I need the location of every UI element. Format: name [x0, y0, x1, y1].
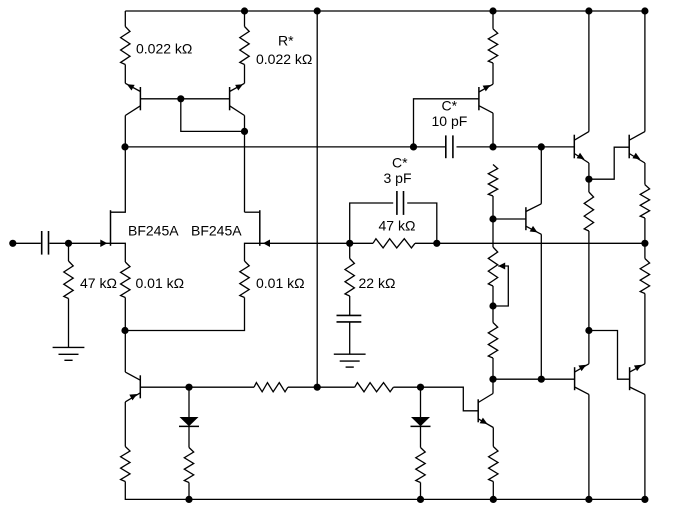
svg-text:10 pF: 10 pF: [432, 113, 468, 129]
wire R3 to Q3 emitter: [492, 63, 494, 84]
wire Q5 collector up: [588, 11, 590, 132]
node dot top rail node A: [241, 7, 248, 14]
resistor emitter Q8: [121, 447, 130, 482]
wire bias column to R18: [317, 386, 355, 388]
wire Q4 collector drop: [540, 147, 542, 204]
node dot Q6 base link node: [585, 176, 592, 183]
wire diode2 node to Q7 base: [421, 387, 479, 411]
wire R7 to summing node: [124, 298, 126, 331]
node dot input terminal: [9, 240, 16, 247]
node dot top rail node C: [489, 7, 496, 14]
wire base link Q1-Q2: [140, 98, 229, 100]
diode D2: [411, 417, 431, 426]
resistor 47 kOhm input: [64, 261, 73, 299]
wire Q6 base link: [589, 147, 629, 179]
wire C1 to input node: [49, 242, 68, 244]
wire J1 drain step: [111, 147, 126, 212]
wire left column top (rail to R1): [124, 11, 126, 27]
wire fourth column R3b to Q4 base node: [492, 196, 494, 219]
label 0.01 kOhm right: [256, 275, 305, 291]
wire node to Q9 base: [541, 378, 574, 380]
node dot row2 node col4: [489, 143, 496, 150]
resistor emitter Q5: [584, 192, 593, 231]
transistor Q7: [478, 394, 493, 428]
node dot Q7 collector node: [489, 376, 496, 383]
wire R14 to bottom rail: [188, 483, 190, 500]
trimmer wiper wire: [493, 266, 508, 306]
wire row2 horizontal (Q1 collector to C2): [125, 146, 413, 148]
wire fourth column top (rail to R3): [492, 11, 494, 29]
svg-text:47 kΩ: 47 kΩ: [80, 275, 117, 291]
wire trimmer to mid node: [492, 286, 494, 306]
svg-text:0.022 kΩ: 0.022 kΩ: [136, 41, 192, 57]
wire input node down to R6: [68, 243, 70, 261]
node dot trimmer bottom node: [489, 302, 496, 309]
node dot row2 node cap: [410, 143, 417, 150]
wire J2 gate from feedback column: [260, 242, 350, 244]
label BF245A left: [128, 223, 179, 239]
wire input node to J1 gate: [69, 242, 111, 244]
wire Q9 collector down: [588, 394, 590, 499]
capacitor input coupling: [42, 231, 49, 255]
wire Q10 collector down: [644, 394, 646, 499]
node dot bottom rail node B: [417, 496, 424, 503]
node dot bottom rail node D: [585, 496, 592, 503]
label 47 kOhm feedback: [379, 218, 416, 234]
svg-text:22 kΩ: 22 kΩ: [359, 275, 396, 291]
node dot bottom rail node C: [490, 496, 497, 503]
wire R8 to corner: [125, 298, 244, 331]
svg-text:C*: C*: [442, 98, 458, 114]
label 47 kOhm input: [80, 275, 117, 291]
wire Q3 collector to row2: [492, 113, 494, 147]
wire R1 to Q1 emitter: [124, 65, 126, 84]
wire mid node to R12: [492, 306, 494, 323]
resistor emitter Q6: [640, 185, 649, 218]
wire R15 to bottom rail: [420, 483, 422, 500]
resistor collector load Q3: [488, 165, 497, 197]
node dot top rail node B: [314, 7, 321, 14]
transistor Q10: [630, 364, 645, 395]
wire 3pF left branch: [350, 203, 394, 243]
node dot bottom rail node A: [185, 496, 192, 503]
JFET J2 BF245A: [260, 210, 270, 247]
wire R4 to node 330: [588, 231, 590, 331]
resistor 22 kOhm: [345, 259, 354, 297]
resistor top fourth column: [488, 29, 497, 63]
wire node330 to Q9 emitter: [588, 331, 590, 364]
wire Q4 base node to trimmer: [492, 219, 494, 247]
transistor Q6: [629, 132, 645, 163]
wire row2 to Q5 base: [541, 146, 574, 148]
diode D1: [179, 417, 199, 426]
label 10 pF: [432, 113, 468, 129]
node dot node330 right: [585, 327, 592, 334]
wire row2 to fifth column: [493, 146, 541, 148]
node dot row2 node left: [121, 143, 128, 150]
wire R2 to Q2 emitter: [244, 65, 246, 84]
resistor 0.01 kOhm right: [240, 261, 249, 298]
svg-text:BF245A: BF245A: [191, 223, 242, 239]
resistor 47 kOhm feedback: [373, 239, 415, 248]
node dot bottom rail node E: [641, 496, 648, 503]
wire Q6 emitter to R5: [644, 163, 646, 185]
wire R18 to diode2 node: [393, 386, 420, 388]
wire third column (rail to bias node): [316, 11, 318, 387]
wire Q2 collector to link node: [244, 116, 246, 132]
node dot bias column node: [314, 384, 321, 391]
node dot input bias node: [65, 240, 72, 247]
wire R11 to Q10 emitter: [644, 294, 646, 364]
wire 3pF right branch: [407, 203, 437, 243]
wire summing node down to Q8: [124, 331, 126, 373]
wire D1 anode: [188, 387, 190, 417]
resistor bias right horizontal: [355, 383, 394, 392]
node dot gate row right node: [641, 240, 648, 247]
wire J2 drain column: [244, 131, 246, 212]
wire R4 top: [588, 179, 590, 192]
wire 22k top: [349, 243, 351, 258]
wire Q4 base: [493, 218, 526, 220]
label 0.01 kOhm left: [136, 275, 185, 291]
node dot mirror base node: [177, 95, 184, 102]
wire Q3 base corner: [414, 99, 479, 147]
label BF245A right: [191, 223, 242, 239]
svg-text:47 kΩ: 47 kΩ: [379, 218, 416, 234]
label C* 3pF title: [392, 155, 408, 171]
wire J2 drain step: [245, 211, 260, 213]
resistor diode chain left: [184, 448, 193, 483]
svg-text:0.022 kΩ: 0.022 kΩ: [256, 51, 312, 67]
wire top supply rail: [125, 10, 645, 12]
svg-text:C*: C*: [392, 155, 408, 171]
node dot top rail node D: [585, 7, 592, 14]
capacitor C* 3 pF: [397, 191, 404, 215]
label R*: [278, 33, 294, 49]
label 0.022 kOhm right: [256, 51, 312, 67]
capacitor 22k bypass: [337, 315, 362, 322]
label 0.022 kOhm left: [136, 41, 192, 57]
svg-text:BF245A: BF245A: [128, 223, 179, 239]
node dot summing node: [121, 327, 128, 334]
wire Q8 emitter down: [124, 402, 126, 447]
capacitor C* 10 pF: [414, 135, 453, 158]
resistor mid fourth column: [488, 323, 497, 359]
node dot driver node: [538, 376, 545, 383]
wire Q6 collector up: [644, 11, 646, 132]
wire R17 to bias column: [288, 386, 317, 388]
wire D2 anode: [420, 387, 422, 417]
resistor emitter Q7: [489, 447, 498, 482]
wire Q1 collector down to node row: [124, 116, 126, 147]
svg-text:3 pF: 3 pF: [384, 170, 412, 186]
wire node to R11: [644, 243, 646, 258]
wire R12 to collector node: [492, 358, 494, 379]
svg-text:0.01 kΩ: 0.01 kΩ: [136, 275, 185, 291]
node dot Q4 base node: [489, 215, 496, 222]
node dot feedback node right: [433, 240, 440, 247]
wire Q8 base to diode node: [141, 386, 189, 388]
transistor Q5: [574, 132, 589, 163]
wire J2 source step: [245, 243, 260, 261]
node dot top rail node E: [641, 7, 648, 14]
resistor upper output right: [640, 259, 649, 294]
wire D1 cathode to R14: [188, 426, 190, 447]
resistor 0.01 kOhm left: [121, 262, 130, 298]
resistor bias left horizontal: [254, 383, 288, 392]
ground input bias: [53, 347, 85, 360]
wire 47k feedback left lead: [350, 242, 373, 244]
wire row2 cap right side: [457, 146, 494, 148]
transistor Q8: [125, 372, 140, 402]
wire mirror link down-right: [181, 99, 245, 132]
svg-text:0.01 kΩ: 0.01 kΩ: [256, 275, 305, 291]
resistor diode chain right: [416, 448, 425, 483]
wire Q5 emitter to node: [588, 163, 590, 179]
label 22 kOhm: [359, 275, 396, 291]
ground 22k bypass: [334, 354, 366, 367]
trimmer wiper arrow: [498, 263, 505, 270]
wire R16 to bottom rail: [492, 482, 494, 500]
wire 22k to C4: [349, 296, 351, 315]
transistor Q4: [526, 204, 541, 235]
label C* 10pF title: [442, 98, 458, 114]
node dot diode1 node: [185, 384, 192, 391]
wire Q7 emitter to R16: [492, 428, 494, 447]
resistor 0.022 kOhm left: [121, 27, 130, 65]
transistor Q9: [575, 364, 589, 395]
wire R6 to ground: [68, 299, 70, 348]
wire Q7 collector up: [492, 379, 494, 393]
wire second column top (rail to R2): [244, 11, 246, 27]
wire diode node to R17: [189, 386, 254, 388]
JFET J1 BF245A: [100, 210, 110, 247]
node dot diode2 node: [417, 384, 424, 391]
wire bottom rail: [125, 482, 645, 500]
wire Q4 emitter drop: [540, 234, 542, 379]
wire 47k feedback right lead: [415, 242, 437, 244]
label 3 pF: [384, 170, 412, 186]
wire collector node row: [493, 378, 541, 380]
transistor Q2: [230, 83, 245, 115]
node dot row2 node col5: [538, 143, 545, 150]
wire Q10 base link: [589, 331, 630, 380]
wire R5 to gate row node: [644, 218, 646, 243]
trimmer resistor: [488, 247, 497, 286]
transistor Q3: [479, 84, 493, 113]
node dot feedback node left: [346, 240, 353, 247]
wire D2 cathode to R15: [420, 426, 422, 447]
node dot mirror link node: [241, 128, 248, 135]
svg-text:R*: R*: [278, 33, 294, 49]
wire J1 source step: [111, 243, 126, 262]
wire gate row right section: [437, 242, 645, 244]
wire input to C1: [13, 242, 41, 244]
wire C4 to ground: [349, 322, 351, 354]
resistor R* 0.022 kOhm: [240, 27, 249, 65]
transistor Q1: [125, 83, 140, 115]
